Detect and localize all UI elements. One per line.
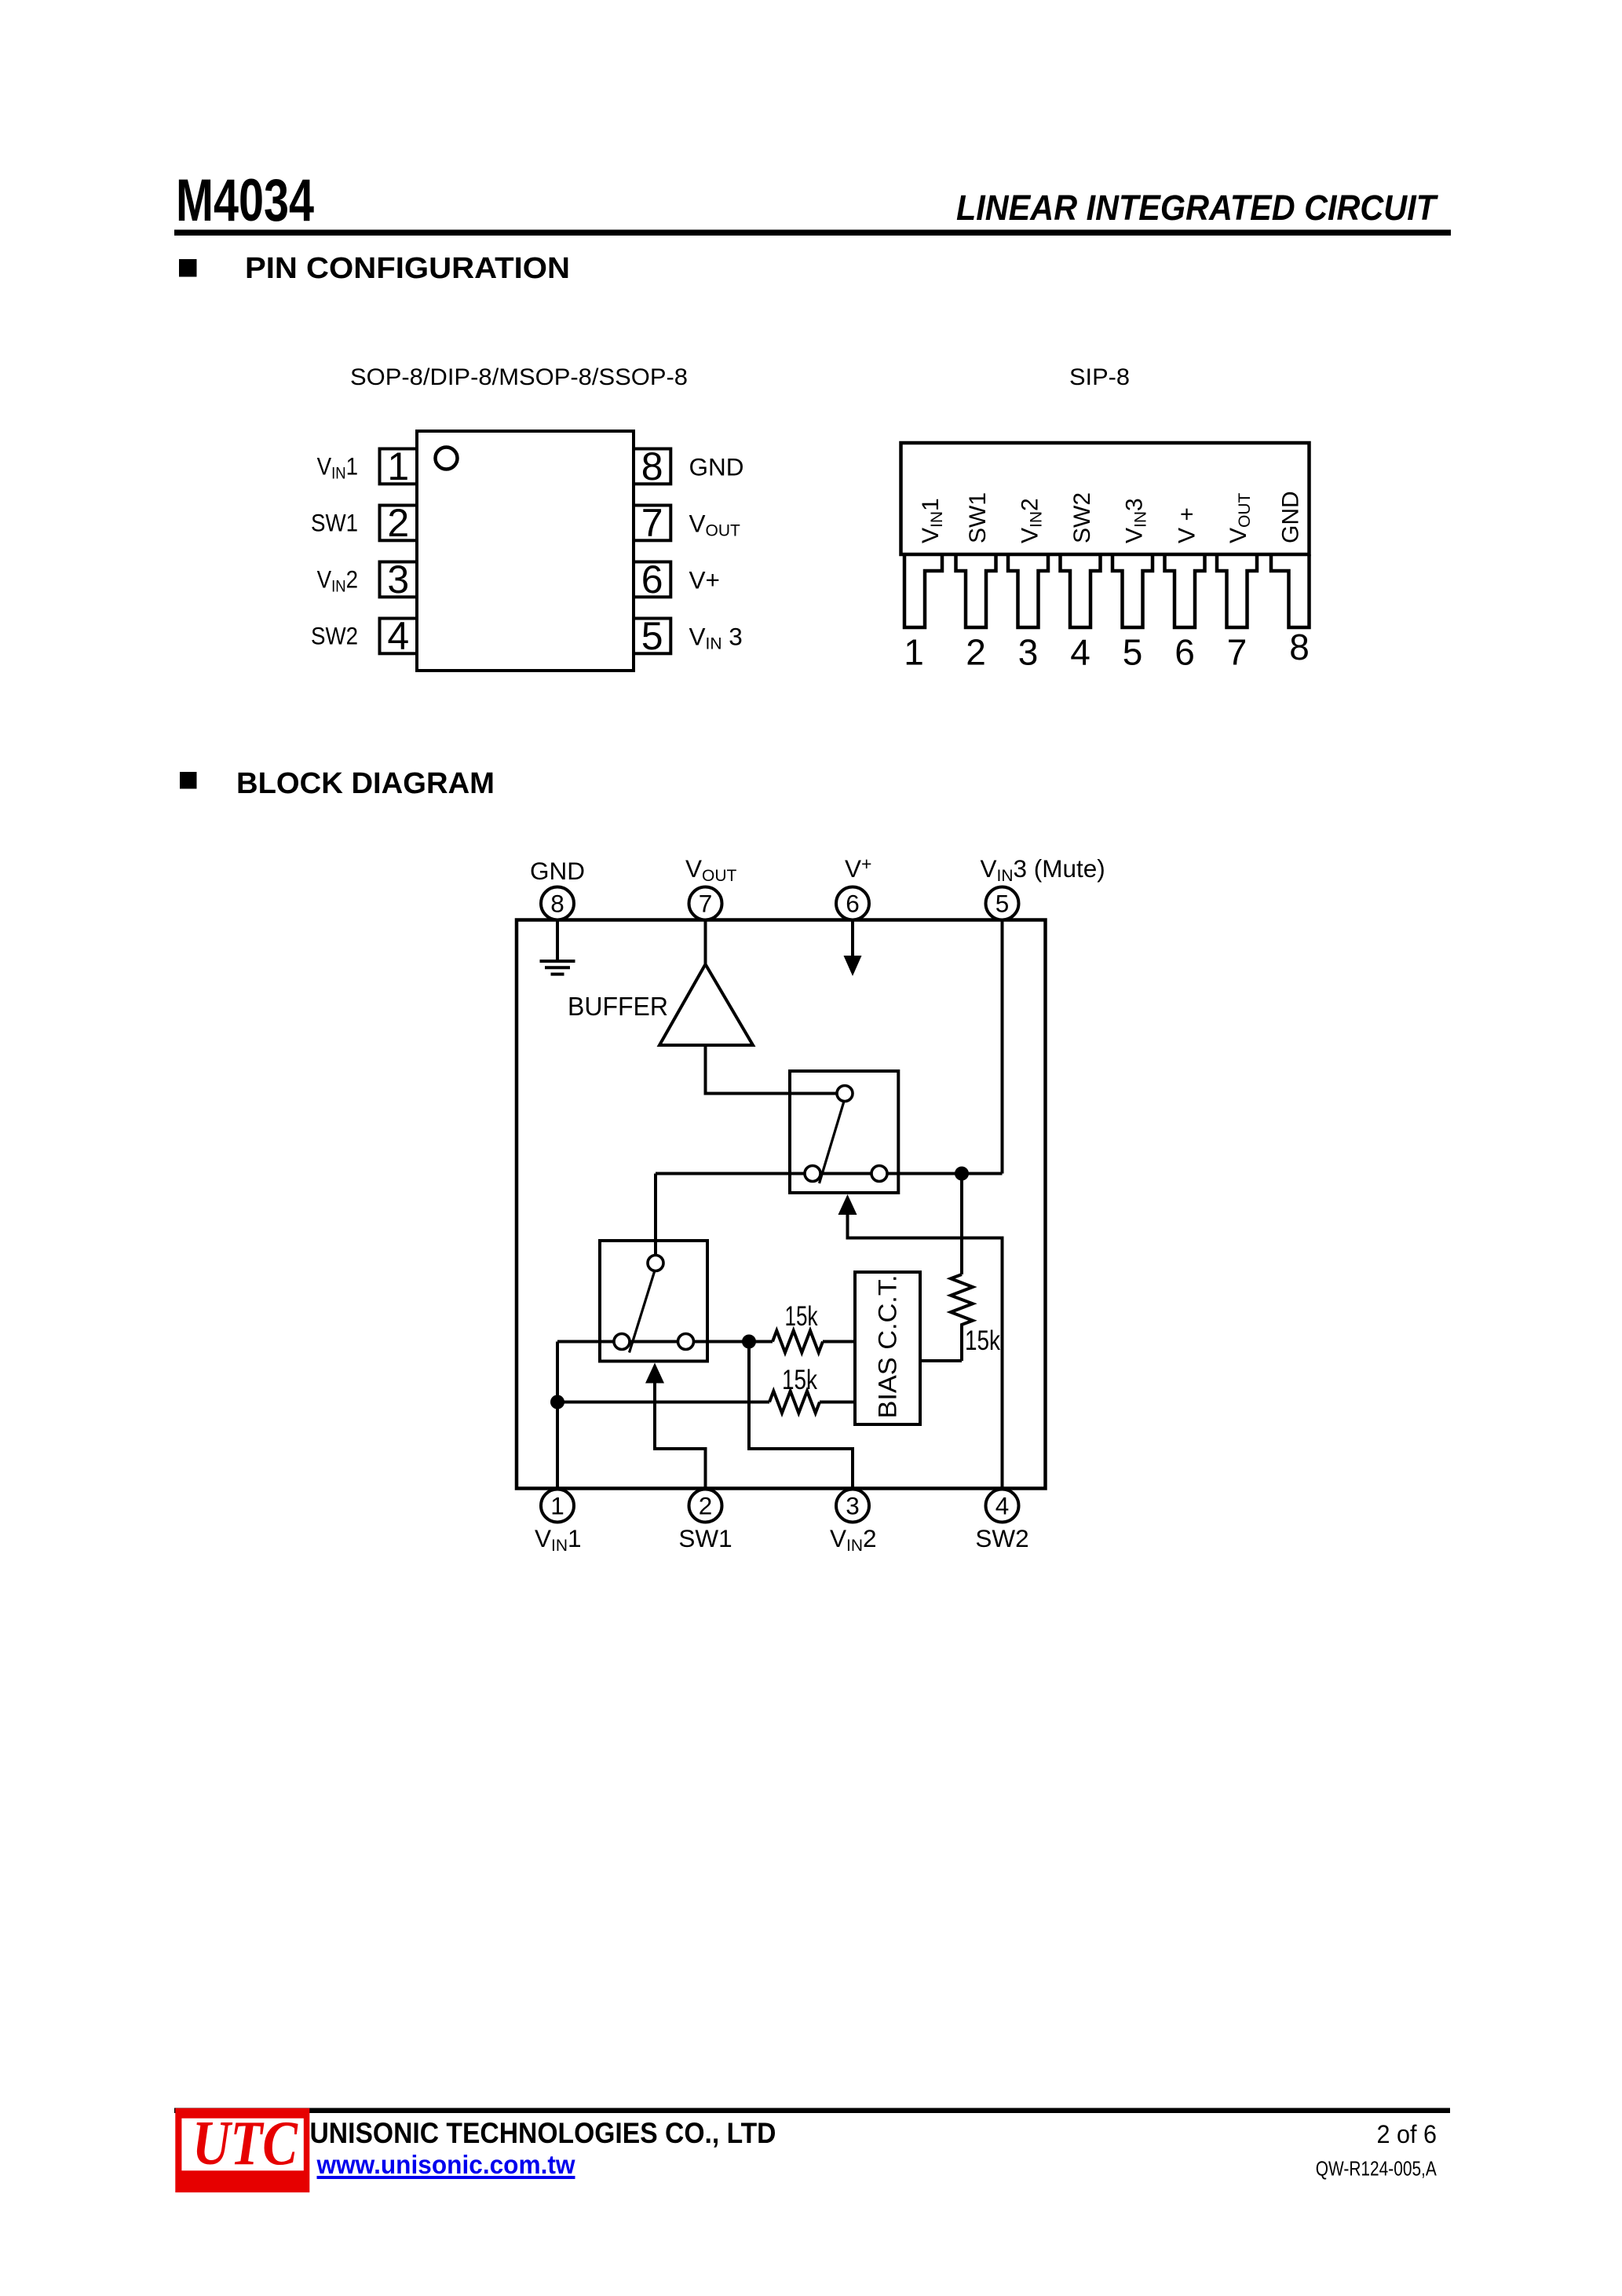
svg-text:GND: GND (1278, 491, 1304, 543)
switch SW1 box (600, 1241, 707, 1362)
svg-text:VIN1: VIN1 (317, 453, 358, 483)
block diagram outer box (517, 920, 1046, 1489)
wire buffer output to switch2 input (706, 1045, 838, 1094)
section bullet PIN CONFIGURATION (179, 259, 197, 277)
svg-text:SW2: SW2 (1069, 492, 1095, 543)
SIP pin 7 lead (1217, 554, 1257, 627)
svg-text:6: 6 (1174, 632, 1195, 673)
svg-text:SIP-8: SIP-8 (1069, 364, 1130, 390)
wire pin7 to buffer (704, 920, 707, 965)
DIP pin-1 indicator circle (436, 448, 458, 470)
svg-text:VOUT: VOUT (689, 510, 741, 540)
SIP pin 8 lead (1271, 554, 1310, 627)
svg-text:SW1: SW1 (678, 1524, 732, 1552)
switch SW2 lever (820, 1102, 845, 1184)
svg-text:V+: V+ (689, 566, 720, 594)
section bullet BLOCK DIAGRAM (180, 772, 197, 789)
switch SW2 right contact (871, 1166, 887, 1182)
SIP package body (901, 443, 1310, 554)
junction node VIN1 (550, 1395, 564, 1409)
wire pin5 down (1001, 920, 1004, 1174)
DIP pin 7 box (634, 506, 670, 541)
pin circle 1 (541, 1490, 574, 1523)
switch SW1 right contact (678, 1334, 694, 1350)
switch SW1 left contact (614, 1334, 630, 1350)
switch SW1 lever (630, 1270, 656, 1353)
svg-text:4: 4 (1070, 632, 1090, 673)
svg-text:VIN 3: VIN 3 (689, 623, 743, 653)
DIP pin 6 box (634, 562, 670, 598)
svg-text:1: 1 (550, 1492, 564, 1520)
svg-text:GND: GND (530, 857, 585, 885)
svg-text:7: 7 (1227, 632, 1248, 673)
UTC logo (175, 2108, 309, 2192)
arrowhead SW1 control (645, 1363, 664, 1384)
DIP pin 5 box (634, 619, 670, 654)
svg-text:1: 1 (904, 632, 924, 673)
svg-text:7: 7 (699, 890, 713, 918)
svg-text:PIN CONFIGURATION: PIN CONFIGURATION (245, 252, 570, 285)
svg-text:VIN3 (Mute): VIN3 (Mute) (981, 854, 1105, 885)
svg-text:BLOCK DIAGRAM: BLOCK DIAGRAM (236, 767, 495, 800)
wire switch1 bottom rail (557, 1340, 773, 1344)
svg-text:2: 2 (966, 632, 986, 673)
svg-text:BIAS C.C.T.: BIAS C.C.T. (874, 1275, 902, 1419)
DIP pin 4 box (380, 619, 418, 654)
svg-text:1: 1 (387, 444, 409, 488)
switch SW2 box (790, 1071, 898, 1193)
wire R1 to bias (823, 1340, 856, 1344)
header rule (174, 230, 1451, 236)
switch SW2 control wire from pin4 (848, 1213, 1003, 1490)
svg-text:2: 2 (699, 1492, 713, 1520)
wire pin1 riser (556, 1342, 559, 1490)
SIP pin 2 lead (956, 554, 996, 627)
svg-text:8: 8 (550, 890, 564, 918)
switch SW2 left contact (805, 1166, 820, 1182)
wire VIN2 from node to pin3 (749, 1342, 853, 1490)
svg-text:6: 6 (846, 890, 860, 918)
wire R2 to bias (820, 1401, 856, 1404)
svg-text:BUFFER: BUFFER (568, 992, 668, 1021)
svg-text:SW2: SW2 (311, 623, 358, 650)
svg-text:SW1: SW1 (965, 492, 991, 543)
footer rule (174, 2108, 1450, 2114)
svg-text:4: 4 (995, 1492, 1010, 1520)
svg-text:3: 3 (387, 558, 409, 601)
junction node rail/resistor (955, 1167, 969, 1181)
svg-text:2: 2 (387, 501, 409, 545)
pin circle 3 (836, 1490, 869, 1523)
arrowhead SW2 control (838, 1194, 857, 1215)
resistor R1 15k (upper horizontal) (773, 1331, 823, 1353)
SIP pin 5 lead (1112, 554, 1153, 627)
switch SW1 top contact (648, 1256, 663, 1271)
svg-text:3: 3 (846, 1492, 860, 1520)
svg-text:UTC: UTC (192, 2109, 298, 2178)
svg-text:M4034: M4034 (176, 167, 314, 234)
svg-text:15k: 15k (785, 1300, 818, 1332)
SIP pin 6 lead (1165, 554, 1205, 627)
DIP pin 2 box (380, 506, 418, 541)
svg-text:3: 3 (1018, 632, 1039, 673)
svg-text:6: 6 (641, 558, 663, 601)
wire pin8 to ground (556, 920, 559, 962)
wire rail to switch1 input (654, 1174, 657, 1256)
wire switch2 common rail (656, 1172, 1003, 1175)
wire R3 to bias box (920, 1359, 962, 1362)
DIP pin 1 box (380, 449, 418, 484)
DIP pin 3 box (380, 562, 418, 598)
resistor R3 15k (vertical) (960, 1174, 963, 1275)
svg-text:QW-R124-005,A: QW-R124-005,A (1316, 2159, 1437, 2181)
svg-text:7: 7 (641, 501, 663, 545)
svg-text:15k: 15k (965, 1325, 1000, 1356)
pin circle 5 (986, 887, 1019, 920)
DIP package body U1 (417, 431, 634, 671)
junction node VIN2 (742, 1335, 756, 1349)
svg-text:5: 5 (641, 614, 663, 658)
svg-text:UNISONIC TECHNOLOGIES CO., LTD: UNISONIC TECHNOLOGIES CO., LTD (310, 2116, 776, 2149)
svg-text:8: 8 (641, 444, 663, 488)
switch SW2 top contact (837, 1086, 853, 1102)
svg-text:VIN2: VIN2 (830, 1524, 877, 1555)
svg-text:5: 5 (1123, 632, 1143, 673)
SIP pin 3 lead (1008, 554, 1048, 627)
resistor R2 15k (lower horizontal) (769, 1391, 820, 1413)
svg-text:SOP-8/DIP-8/MSOP-8/SSOP-8: SOP-8/DIP-8/MSOP-8/SSOP-8 (350, 364, 688, 390)
wire lower rail from VIN1 node (557, 1401, 769, 1404)
wire pin6 V+ arrow (851, 920, 854, 971)
svg-text:2 of 6: 2 of 6 (1377, 2120, 1438, 2148)
svg-text:LINEAR INTEGRATED CIRCUIT: LINEAR INTEGRATED CIRCUIT (956, 188, 1438, 228)
SIP pin 4 lead (1061, 554, 1101, 627)
svg-text:8: 8 (1289, 627, 1310, 667)
svg-text:V+: V+ (845, 854, 871, 883)
svg-text:www.unisonic.com.tw: www.unisonic.com.tw (316, 2150, 575, 2179)
svg-text:VIN2: VIN2 (317, 566, 358, 596)
svg-text:15k: 15k (782, 1364, 817, 1395)
svg-text:4: 4 (387, 614, 409, 658)
svg-text:VOUT: VOUT (685, 854, 737, 885)
svg-text:VIN1: VIN1 (535, 1524, 582, 1555)
svg-text:SW2: SW2 (975, 1524, 1028, 1552)
bias circuit box U2 (855, 1272, 920, 1424)
svg-text:SW1: SW1 (311, 510, 358, 537)
svg-text:5: 5 (995, 890, 1010, 918)
pin circle 4 (986, 1490, 1019, 1523)
buffer amplifier (659, 964, 753, 1045)
SIP pin 1 lead (904, 554, 942, 627)
pin circle 8 (541, 887, 574, 920)
DIP pin 8 box (634, 449, 670, 484)
pin circle 2 (689, 1490, 722, 1523)
pin circle 7 (689, 887, 722, 920)
switch SW1 control wire from pin2 (655, 1382, 706, 1490)
svg-text:GND: GND (689, 453, 744, 481)
ground symbol (540, 961, 575, 974)
pin circle 6 (836, 887, 869, 920)
svg-text:V +: V + (1174, 507, 1200, 543)
